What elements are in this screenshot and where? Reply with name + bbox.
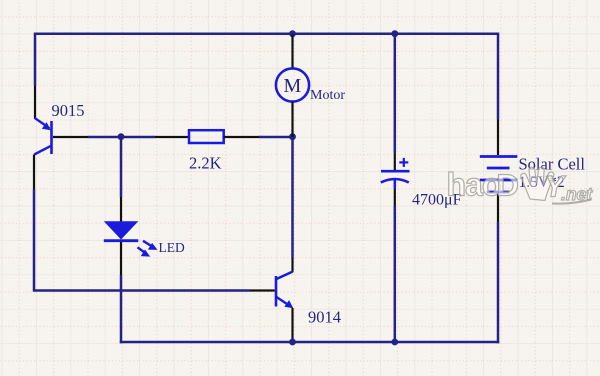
- wire capacitor top lead (black): [394, 153, 396, 170]
- wire LED cathode lead (black): [120, 242, 122, 275]
- wire resistor right lead (black): [224, 136, 259, 138]
- wire top rail: [34, 32, 499, 35]
- wire LED anode lead (black): [120, 197, 122, 222]
- wire capacitor bottom lead (black): [394, 189, 396, 206]
- svg-text:M: M: [284, 75, 302, 97]
- svg-text:LED: LED: [159, 240, 185, 255]
- capacitor C1 plus sign: [399, 158, 408, 167]
- capacitor C1 top plate: [381, 170, 410, 173]
- wire bottom rail: [120, 341, 499, 344]
- watermark haoDIY.net: [447, 167, 594, 205]
- wire left vertical lower (blue): [34, 189, 250, 291]
- wire right vertical lower (blue): [497, 222, 500, 343]
- LED cathode bar: [104, 239, 139, 242]
- capacitor C1 bottom plate (arc): [381, 179, 409, 183]
- svg-text:D: D: [497, 168, 519, 203]
- wire 9014 collector lead (black): [291, 258, 293, 272]
- battery BT1 solar cell plates: [480, 157, 518, 193]
- 9014 emitter arrowhead: [284, 300, 293, 308]
- LED D1 triangle: [104, 221, 139, 239]
- svg-text:9015: 9015: [52, 101, 85, 120]
- node E junction dot (top rail / capacitor): [391, 30, 398, 37]
- LED emission arrow 2: [138, 247, 151, 256]
- wire resistor left lead (black): [155, 136, 189, 138]
- node A junction dot: [118, 133, 125, 140]
- wire 9015 emitter lead (black): [34, 86, 36, 119]
- wire base to node A (blue): [88, 136, 155, 139]
- wire motor top lead (black): [291, 35, 293, 69]
- node C junction dot (top rail / motor): [289, 30, 296, 37]
- transistor Q2 9014: [276, 272, 293, 308]
- wire capacitor bottom stub (blue): [394, 179, 397, 189]
- wire 9015 base lead (black): [53, 136, 88, 138]
- wire 9014 base lead (black): [250, 289, 275, 291]
- wire 9014 emitter lead (black): [291, 308, 293, 341]
- svg-text:Motor: Motor: [310, 88, 345, 103]
- wire motor bottom lead (black): [291, 102, 293, 137]
- node D junction dot (bottom rail / 9014): [289, 339, 296, 346]
- wire resistor to node B (blue): [259, 136, 293, 139]
- svg-text:9014: 9014: [308, 308, 341, 327]
- wire LED to bottom rail (blue): [120, 275, 123, 343]
- resistor R1 2.2K: [189, 130, 224, 143]
- svg-text:hao: hao: [447, 167, 501, 203]
- transistor Q1 9015: [34, 118, 51, 155]
- wire node B down to 9014 collector (blue): [291, 137, 294, 258]
- wire left vertical upper (blue): [34, 34, 37, 86]
- wire right vertical upper (blue): [497, 34, 500, 120]
- 9015 emitter arrowhead: [42, 122, 51, 130]
- LED emission arrow 1: [143, 241, 158, 250]
- node F junction dot (bottom rail / capacitor): [391, 339, 398, 346]
- watermark underline swoosh: [552, 200, 591, 204]
- wire node A down to LED (blue): [120, 137, 123, 197]
- watermark hand glyph: [521, 167, 554, 200]
- wire 9015 collector lead lower (black): [33, 155, 35, 190]
- wire capacitor to bottom rail (blue): [394, 206, 397, 342]
- node B junction dot: [289, 133, 296, 140]
- motor M1 circle: [276, 68, 309, 101]
- svg-text:2.2K: 2.2K: [189, 154, 222, 173]
- wire capacitor branch upper (blue): [394, 34, 397, 153]
- wire battery top lead (black): [497, 120, 499, 156]
- wire battery bottom lead (black): [497, 193, 499, 222]
